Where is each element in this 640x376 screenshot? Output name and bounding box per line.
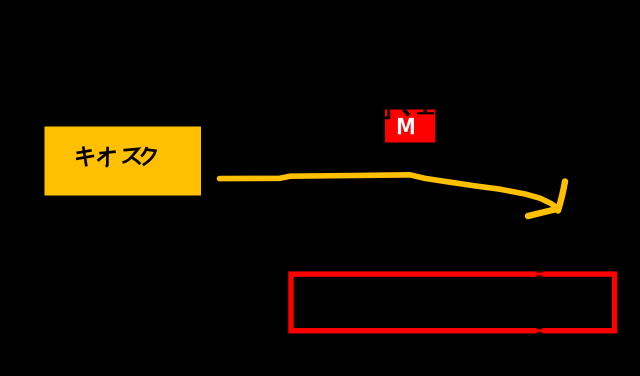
black text fragments overlapping red box	[383, 104, 434, 119]
kiosk label ク	[141, 147, 155, 165]
white M letter	[398, 118, 414, 134]
kiosk box (yellow)	[45, 127, 202, 196]
notches on red rectangle (top)	[536, 271, 542, 334]
metro M box (red)	[385, 110, 435, 143]
kiosk label オ	[98, 147, 116, 167]
red outline rectangle	[291, 274, 615, 331]
kiosk label キ	[76, 146, 94, 166]
arrowhead barb up	[558, 182, 565, 211]
hand-drawn arrow (yellow)	[220, 175, 566, 216]
kiosk label ス	[123, 149, 141, 164]
arrowhead barb left	[528, 209, 556, 216]
